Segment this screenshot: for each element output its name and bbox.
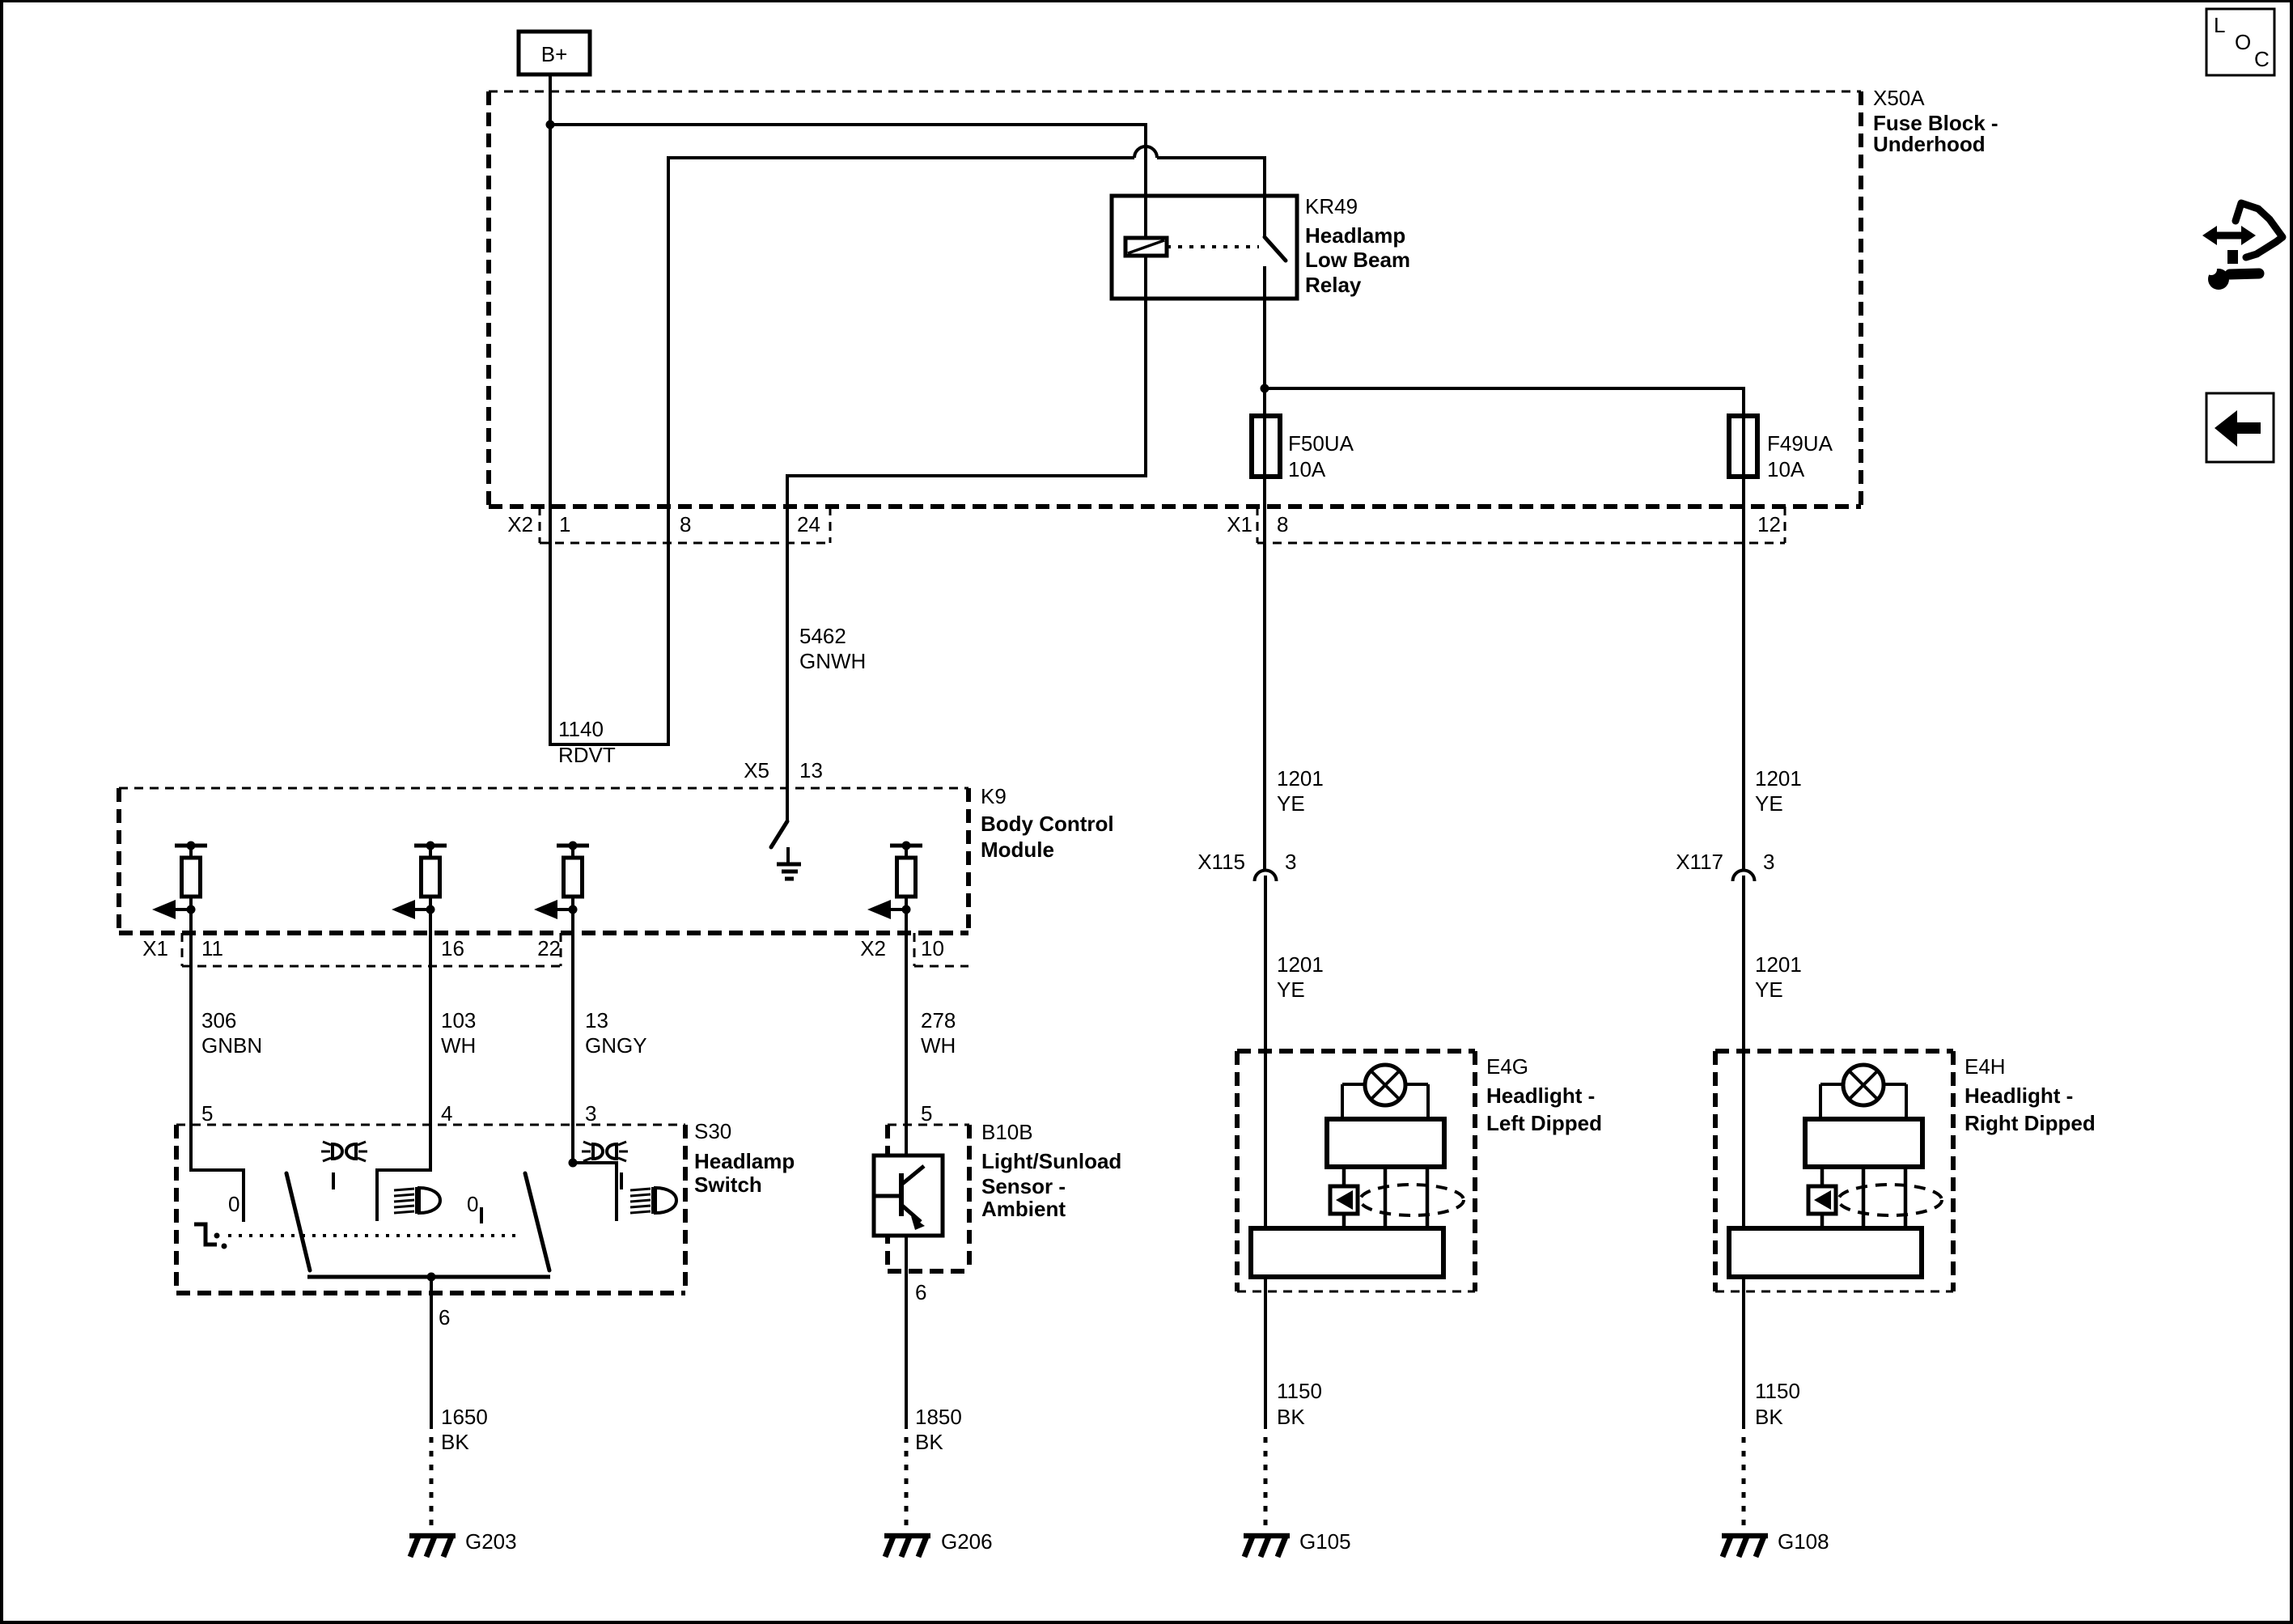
svg-text:Light/Sunload: Light/Sunload bbox=[981, 1149, 1121, 1173]
svg-text:3: 3 bbox=[1285, 850, 1296, 874]
svg-text:K9: K9 bbox=[981, 784, 1007, 808]
svg-text:GNWH: GNWH bbox=[799, 649, 866, 673]
svg-text:Sensor -: Sensor - bbox=[981, 1174, 1066, 1198]
svg-text:12: 12 bbox=[1757, 512, 1781, 536]
svg-text:22: 22 bbox=[537, 936, 561, 960]
svg-text:X1: X1 bbox=[1227, 512, 1252, 536]
svg-text:306: 306 bbox=[201, 1008, 236, 1032]
svg-text:F49UA: F49UA bbox=[1767, 431, 1833, 456]
svg-text:X5: X5 bbox=[744, 758, 769, 782]
svg-text:Relay: Relay bbox=[1305, 273, 1362, 297]
svg-text:X2: X2 bbox=[860, 936, 886, 960]
svg-text:Right Dipped: Right Dipped bbox=[1965, 1111, 2096, 1135]
svg-text:E4G: E4G bbox=[1486, 1054, 1528, 1079]
svg-text:8: 8 bbox=[1277, 512, 1288, 536]
svg-text:1650: 1650 bbox=[441, 1405, 488, 1429]
svg-text:11: 11 bbox=[201, 936, 223, 960]
svg-text:Underhood: Underhood bbox=[1873, 132, 1986, 156]
svg-text:G105: G105 bbox=[1299, 1529, 1351, 1554]
svg-text:WH: WH bbox=[921, 1033, 956, 1058]
svg-text:5: 5 bbox=[921, 1101, 932, 1126]
svg-text:X117: X117 bbox=[1676, 850, 1723, 874]
svg-text:16: 16 bbox=[441, 936, 464, 960]
svg-text:5462: 5462 bbox=[799, 624, 846, 648]
svg-text:Left Dipped: Left Dipped bbox=[1486, 1111, 1602, 1135]
svg-text:1201: 1201 bbox=[1755, 952, 1802, 977]
svg-text:BK: BK bbox=[1755, 1405, 1783, 1429]
svg-text:O: O bbox=[2235, 30, 2251, 54]
svg-text:1150: 1150 bbox=[1755, 1379, 1800, 1403]
svg-text:10A: 10A bbox=[1288, 457, 1326, 481]
svg-text:10: 10 bbox=[921, 936, 944, 960]
svg-text:Headlight -: Headlight - bbox=[1486, 1083, 1595, 1108]
svg-text:G206: G206 bbox=[941, 1529, 993, 1554]
svg-text:YE: YE bbox=[1755, 977, 1783, 1002]
svg-text:0: 0 bbox=[228, 1192, 239, 1216]
svg-text:Headlamp: Headlamp bbox=[1305, 223, 1405, 248]
svg-text:1150: 1150 bbox=[1277, 1379, 1322, 1403]
svg-text:1201: 1201 bbox=[1277, 952, 1324, 977]
svg-text:L: L bbox=[2214, 13, 2225, 37]
svg-text:4: 4 bbox=[441, 1101, 452, 1126]
svg-text:GNGY: GNGY bbox=[585, 1033, 647, 1058]
svg-text:Body Control: Body Control bbox=[981, 812, 1114, 836]
svg-text:10A: 10A bbox=[1767, 457, 1805, 481]
svg-text:GNBN: GNBN bbox=[201, 1033, 262, 1058]
svg-text:B+: B+ bbox=[541, 42, 568, 66]
svg-text:KR49: KR49 bbox=[1305, 194, 1358, 218]
svg-text:X50A: X50A bbox=[1873, 86, 1925, 110]
svg-text:13: 13 bbox=[799, 758, 823, 782]
svg-text:F50UA: F50UA bbox=[1288, 431, 1354, 456]
svg-text:RDVT: RDVT bbox=[558, 743, 616, 767]
svg-text:3: 3 bbox=[585, 1101, 596, 1126]
svg-text:X115: X115 bbox=[1197, 850, 1245, 874]
svg-text:YE: YE bbox=[1755, 791, 1783, 816]
svg-text:1: 1 bbox=[559, 512, 570, 536]
svg-text:BK: BK bbox=[1277, 1405, 1305, 1429]
svg-text:1140: 1140 bbox=[558, 717, 604, 741]
svg-text:Module: Module bbox=[981, 837, 1054, 862]
svg-text:1201: 1201 bbox=[1755, 766, 1802, 791]
svg-text:Low Beam: Low Beam bbox=[1305, 248, 1410, 272]
svg-text:13: 13 bbox=[585, 1008, 608, 1032]
svg-text:6: 6 bbox=[915, 1280, 926, 1304]
svg-text:1850: 1850 bbox=[915, 1405, 962, 1429]
svg-text:X1: X1 bbox=[142, 936, 168, 960]
svg-text:S30: S30 bbox=[694, 1119, 731, 1143]
svg-text:0: 0 bbox=[467, 1192, 478, 1216]
svg-text:Ambient: Ambient bbox=[981, 1197, 1066, 1221]
svg-text:278: 278 bbox=[921, 1008, 956, 1032]
svg-text:1201: 1201 bbox=[1277, 766, 1324, 791]
svg-text:BK: BK bbox=[915, 1430, 943, 1454]
svg-text:BK: BK bbox=[441, 1430, 469, 1454]
svg-text:G203: G203 bbox=[465, 1529, 517, 1554]
svg-text:24: 24 bbox=[797, 512, 820, 536]
svg-text:Headlight -: Headlight - bbox=[1965, 1083, 2073, 1108]
svg-text:Headlamp: Headlamp bbox=[694, 1149, 795, 1173]
svg-text:8: 8 bbox=[680, 512, 691, 536]
svg-text:Switch: Switch bbox=[694, 1172, 762, 1197]
svg-text:YE: YE bbox=[1277, 791, 1305, 816]
svg-text:WH: WH bbox=[441, 1033, 476, 1058]
svg-text:C: C bbox=[2254, 47, 2270, 71]
svg-text:YE: YE bbox=[1277, 977, 1305, 1002]
svg-text:E4H: E4H bbox=[1965, 1054, 2006, 1079]
svg-text:G108: G108 bbox=[1778, 1529, 1829, 1554]
svg-text:5: 5 bbox=[201, 1101, 213, 1126]
svg-text:3: 3 bbox=[1763, 850, 1774, 874]
svg-text:B10B: B10B bbox=[981, 1120, 1033, 1144]
svg-text:X2: X2 bbox=[507, 512, 533, 536]
svg-text:103: 103 bbox=[441, 1008, 476, 1032]
svg-text:6: 6 bbox=[439, 1305, 450, 1329]
